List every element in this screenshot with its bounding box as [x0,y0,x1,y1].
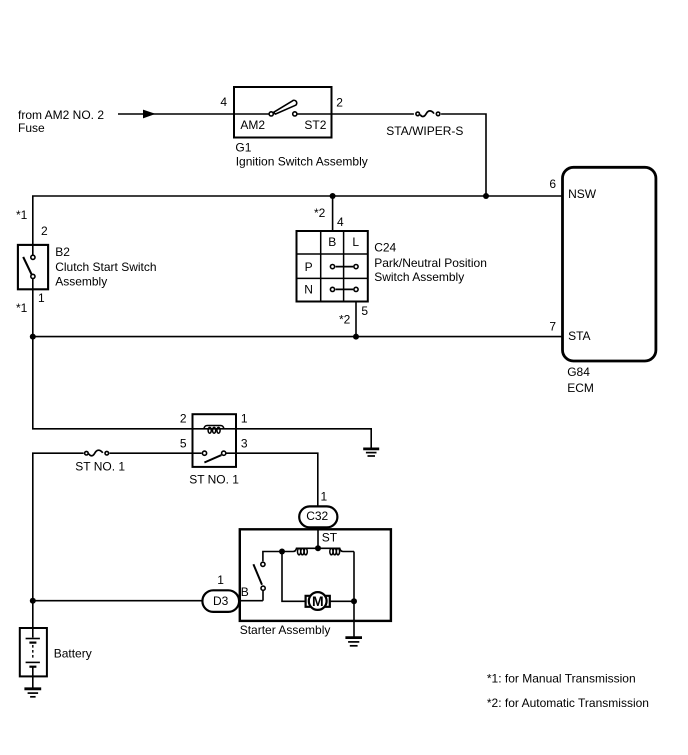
switch lever of G1 [274,100,297,114]
starter left coil loop 3 [304,548,307,554]
starter switch bottom circle [261,586,265,590]
svg-text:ST2: ST2 [304,118,326,132]
switch contact AM2 (circle) [269,112,273,116]
wire: starter coil top line with end curls [282,548,354,551]
fusible link STA/WIPER-S (right circle) [436,112,440,116]
label C24 Park/Neutral Position Switch Assembly [374,240,487,284]
svg-text:4: 4 [220,95,227,109]
relay coil curls [204,426,224,429]
ground symbol (starter) [345,638,362,646]
starter right coil loop 1 [330,548,333,554]
svg-text:ECM: ECM [567,381,594,395]
battery plate short 2 [29,666,36,668]
label B2 Clutch Start Switch Assembly [55,245,156,289]
contact P row: link bar [336,266,354,268]
svg-text:*2: *2 [314,206,326,220]
svg-text:7: 7 [549,320,556,334]
junction dot ST/coil [315,545,321,551]
svg-text:from AM2 NO. 2: from AM2 NO. 2 [18,108,104,122]
wire: from fuse down to NSW node [441,114,486,196]
C24 grid vertical line 1 [320,231,322,302]
contact P row: right circle [354,265,358,269]
svg-text:5: 5 [180,436,187,450]
relay coil loop 1 [208,427,211,433]
fusible link ST NO.1 right circle [105,451,109,455]
svg-text:AM2: AM2 [240,118,265,132]
B2 bottom contact circle [31,274,35,278]
B2 switch lever [23,257,31,275]
wire: starter switch to B wire [262,591,264,601]
ground symbol (relay coil) [363,449,379,456]
ECM G84 box [563,167,656,361]
svg-text:Ignition Switch Assembly: Ignition Switch Assembly [236,155,368,169]
contact N row: left circle [330,287,334,291]
svg-text:B: B [241,585,249,599]
starter right coil loop 2 [333,548,336,554]
starter left coil loop 2 [301,548,304,554]
svg-text:M: M [312,593,324,609]
fusible link STA/WIPER-S (left circle) [416,112,420,116]
C24 grid horizontal line 1 [297,253,368,255]
svg-text:G84: G84 [567,365,590,379]
arrowhead on feed wire [143,110,156,119]
svg-text:Switch Assembly: Switch Assembly [374,270,464,284]
fusible link ST NO.1 wave [89,450,103,456]
svg-text:*1: *1 [16,301,28,315]
svg-text:B2: B2 [55,245,70,259]
junction dot at C24 top [330,193,336,199]
wire: C32 to starter box [317,527,319,529]
svg-text:Park/Neutral Position: Park/Neutral Position [374,256,487,270]
svg-text:2: 2 [180,411,187,425]
C24 grid vertical line 2 [343,231,345,302]
junction dot at C24 bottom [353,334,359,340]
svg-text:ST: ST [322,530,338,544]
junction dot clutch/STA [30,334,36,340]
svg-text:1: 1 [321,489,328,503]
C24 grid horizontal line 2 [297,277,368,279]
wire: battery to ground [32,667,34,688]
svg-text:Clutch Start Switch: Clutch Start Switch [55,260,156,274]
starter assembly box [240,529,391,621]
starter right coil loop 3 [336,548,339,554]
wire: clutch switch down to STA wire and relay coil [33,279,193,429]
fusible link STA/WIPER-S wave [420,111,434,117]
contact N row: link bar [336,288,354,290]
battery plate long 2 [26,661,40,663]
svg-text:*2: *2 [339,313,351,327]
fusible link ST NO.1 left circle [85,451,89,455]
wire: relay pin 5 stub [193,452,202,454]
wire: battery node to D3 [33,600,203,602]
wire: C24 pin 5 down to STA wire [355,302,357,337]
starter left coil loop 1 [298,548,301,554]
svg-text:Fuse: Fuse [18,121,45,135]
connector C32 (stadium) [299,506,337,527]
svg-text:2: 2 [336,95,343,109]
battery dashed center [32,645,34,660]
wire: ST down to coil junction [317,529,319,548]
park/neutral position switch C24 box [297,231,368,302]
connector D3 (stadium) [202,590,239,612]
svg-text:NSW: NSW [568,187,597,201]
wire: NSW horizontal wire to ECM pin 6 [33,196,563,255]
starter switch top circle [261,562,265,566]
svg-text:C32: C32 [306,509,328,523]
svg-text:STA/WIPER-S: STA/WIPER-S [386,124,463,138]
battery plate short 1 [29,641,36,643]
ground symbol (battery) [24,689,41,697]
svg-text:P: P [305,260,313,274]
wire: inside G1 contact to pin 2 and on to fuse STA/WIPER-S [298,113,414,115]
label G84 ECM [567,365,594,395]
junction dot at fuse/NSW [483,193,489,199]
svg-text:STA: STA [568,329,590,343]
wire: coil left branch down to motor [282,552,306,602]
ignition switch G1 box [234,87,332,138]
battery plate long 1 [26,638,40,640]
svg-text:ST NO. 1: ST NO. 1 [189,472,239,486]
svg-text:*2: for Automatic Transmission: *2: for Automatic Transmission [487,696,649,710]
motor right bracket [325,596,330,607]
wire: relay coil through-wire [193,428,237,430]
svg-text:G1: G1 [235,141,251,155]
svg-text:1: 1 [217,573,224,587]
svg-text:Assembly: Assembly [55,275,107,289]
svg-text:4: 4 [337,215,344,229]
wire: battery node down to battery [32,601,34,638]
wire: down from NSW wire to C24 pin 4 [332,196,334,231]
label G1 Ignition Switch Assembly [235,141,367,169]
wire: inside G1 from pin 4 to contact [234,113,269,115]
wire: coil left to magnetic switch [263,552,282,562]
relay contact left circle [202,451,206,455]
svg-text:L: L [352,235,359,249]
contact P row: left circle [330,265,334,269]
relay coil loop 3 [217,427,220,433]
B2 top contact circle [31,255,35,259]
svg-text:C24: C24 [374,240,396,254]
wire: fusible link to relay pin 5 [110,452,193,454]
svg-text:Battery: Battery [54,647,92,661]
junction dot coil left [279,549,285,555]
wire: battery to fusible link ST NO.1 [33,453,84,601]
label: from AM2 NO. 2 Fuse [18,108,104,135]
svg-text:1: 1 [38,291,45,305]
relay switch lever [204,455,221,462]
svg-text:*1: for Manual Transmission: *1: for Manual Transmission [487,672,636,686]
starter switch lever [253,564,262,585]
relay contact right circle [222,451,226,455]
wire: coil right down to ground [353,552,355,637]
battery box [20,628,47,676]
wire: relay pin 3 to C32 [226,453,318,507]
svg-text:Starter Assembly: Starter Assembly [240,623,331,637]
svg-text:N: N [304,283,313,297]
clutch start switch B2 box [18,245,48,289]
wire: D3 into starter box [239,600,263,602]
svg-text:B: B [328,235,336,249]
svg-text:1: 1 [241,411,248,425]
svg-text:2: 2 [41,224,48,238]
svg-text:*1: *1 [16,208,28,222]
junction dot battery node [30,598,36,604]
motor M circle [309,592,327,610]
wire: relay coil pin 1 to ground [236,429,371,448]
junction dot motor/ground [351,598,357,604]
relay coil loop 2 [213,427,216,433]
starter relay ST NO.1 box [193,414,237,467]
svg-text:D3: D3 [213,594,229,608]
wire: motor right to ground branch [330,600,354,602]
svg-text:6: 6 [549,177,556,191]
svg-text:3: 3 [241,436,248,450]
motor left bracket [306,596,311,607]
svg-text:5: 5 [361,304,368,318]
switch contact ST2 (circle) [293,112,297,116]
svg-text:ST NO. 1: ST NO. 1 [75,460,125,474]
contact N row: right circle [354,287,358,291]
wire: STA horizontal wire to ECM pin 7 [33,336,563,338]
wire: feed from AM2 fuse to ignition switch pin 4 [118,113,234,115]
